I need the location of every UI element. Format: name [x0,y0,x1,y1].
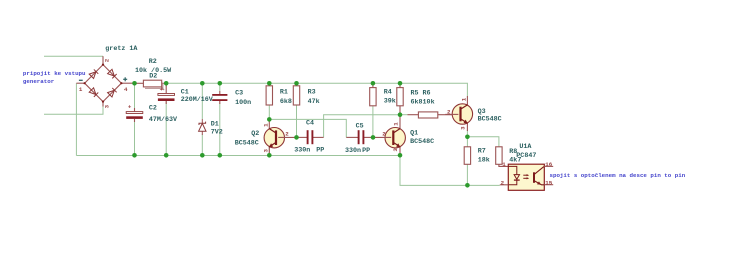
svg-text:BC548C: BC548C [478,115,502,123]
svg-text:2: 2 [382,131,386,138]
svg-text:R5 R6: R5 R6 [411,90,431,98]
wire bridge minus drop [75,83,77,155]
svg-text:U1A: U1A [519,143,532,151]
wire R4 bottom to Q1 base node [372,106,374,138]
zener diode D1 [199,119,206,135]
svg-text:BC548C: BC548C [410,138,434,146]
svg-text:47k: 47k [308,98,320,106]
svg-text:3: 3 [392,148,399,152]
wire generator top stub [44,55,103,57]
capacitor C1 (polarized) [158,86,175,105]
opto LED [508,166,517,174]
resistor R3 [293,83,299,105]
svg-text:7V2: 7V2 [211,128,223,136]
svg-text:C3: C3 [235,90,243,98]
svg-text:1: 1 [79,86,83,93]
opto coupling arrows [523,174,527,176]
wire R7 bottom to lower row [466,164,468,185]
svg-text:D2: D2 [149,73,157,81]
wire B: Q2 collector node to C5 left [269,119,346,137]
capacitor C4 [297,130,324,144]
svg-text:PP: PP [316,147,324,155]
svg-text:PP: PP [362,147,370,155]
resistor R7 [464,147,470,165]
capacitor C5 [346,130,373,144]
svg-text:+: + [128,104,132,111]
resistor R5 [397,83,403,114]
resistor R1 [266,83,272,105]
wire R3 bottom to Q2 base node [296,105,298,137]
diode D2 ghost under R2 [145,83,163,88]
svg-text:6k810k: 6k810k [411,98,435,106]
wire generator bottom stub [44,106,103,114]
wire Q3 emitter node to R8 top [467,137,499,147]
transistor Q3 (NPN) [445,96,472,131]
junction dots [132,81,470,188]
svg-text:PC847: PC847 [516,152,536,160]
svg-text:C4: C4 [306,120,314,128]
svg-text:15: 15 [545,179,552,186]
wire top rail [166,83,467,96]
svg-text:gretz 1A: gretz 1A [105,45,138,53]
wire Q1 collector node drop [399,115,401,126]
svg-text:2: 2 [285,131,289,138]
bridge vertex dots [84,64,123,103]
wire bottom rail [76,155,400,157]
svg-text:R2: R2 [149,58,157,66]
bridge diode TR [108,69,117,78]
svg-text:C2: C2 [149,104,157,112]
wire Q3 emitter node [466,130,468,147]
svg-text:3: 3 [263,149,270,153]
svg-text:2: 2 [447,109,451,116]
capacitor C2 (polarized) [126,104,143,122]
wire Q1 emitter to rail and down to opto row [400,149,500,185]
svg-text:2: 2 [501,180,505,187]
svg-text:Q2: Q2 [251,130,259,138]
bridge diode TL [89,69,98,78]
svg-text:BC548C: BC548C [235,139,259,147]
svg-text:1: 1 [461,97,468,101]
wire A: C4 right up to R5/R6 node [324,115,400,138]
bridge rectifier D? gretz 1A : pin leads [76,56,134,106]
opto pin 15 lead [544,184,553,186]
svg-text:D1: D1 [211,121,219,129]
bridge polarity marks [79,79,83,81]
svg-text:R1: R1 [280,89,288,97]
bridge diode BR [108,88,117,97]
opto phototransistor [533,172,535,183]
svg-text:R4: R4 [384,89,392,97]
svg-text:C5: C5 [356,122,364,130]
resistor R2 (horizontal, on top rail) [135,80,166,90]
svg-text:1: 1 [502,161,506,168]
svg-text:R3: R3 [308,89,316,97]
transistor Q2 (mirrored NPN) [264,119,296,155]
optocoupler U1A PC847 [500,164,553,190]
wire C2 column [134,83,136,108]
bridge diamond edges [85,65,122,102]
transistor Q1 (NPN) [373,115,405,156]
svg-text:1: 1 [263,123,270,127]
svg-text:100n: 100n [235,99,251,107]
svg-text:R7: R7 [478,148,486,156]
svg-text:3: 3 [459,126,466,130]
svg-text:+: + [160,86,164,93]
svg-text:220M/16V: 220M/16V [181,96,213,104]
svg-text:pripojit ke vstupu: pripojit ke vstupu [23,70,86,77]
svg-text:2: 2 [104,58,111,62]
resistor R6 (horizontal) [400,112,453,118]
svg-text:47M/63V: 47M/63V [149,116,177,124]
svg-text:18k: 18k [478,157,490,165]
svg-text:330n: 330n [294,147,310,155]
wire R1 bottom to Q2 collector node [268,105,270,119]
opto pin 2 lead [500,184,509,186]
wire Q2 emitter to rail [268,147,270,156]
svg-text:1: 1 [392,122,399,126]
svg-text:4: 4 [124,86,128,93]
svg-text:3: 3 [104,104,111,108]
wire C3 column [219,83,221,91]
svg-text:generator: generator [23,78,55,85]
opto pin 16 lead [544,165,553,167]
wire C1 column [165,83,167,86]
capacitor C3 [212,91,227,104]
svg-text:330n: 330n [345,147,361,155]
svg-text:spojit s optočlenem na desce p: spojit s optočlenem na desce pin to pin [550,172,686,179]
resistor R4 [370,83,376,106]
svg-text:39k: 39k [384,97,396,105]
resistor R8 [496,147,509,167]
bridge diode BL [89,88,98,97]
wire D1 column [201,83,203,119]
svg-text:Q1: Q1 [410,129,418,137]
svg-text:6k8: 6k8 [280,98,292,106]
svg-text:16: 16 [545,161,552,168]
